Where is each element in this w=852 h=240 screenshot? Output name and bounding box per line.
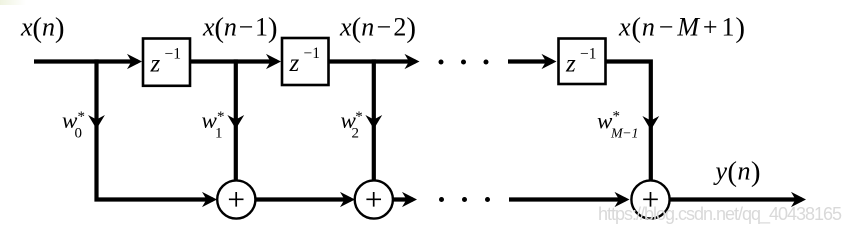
arrowhead bottom middle <box>402 192 417 207</box>
svg-text:x(n − M + 1): x(n − M + 1) <box>618 12 745 44</box>
output arrowhead <box>791 192 806 207</box>
wire input segment <box>34 59 138 63</box>
svg-text:−1: −1 <box>580 46 597 63</box>
svg-text:z: z <box>150 51 161 78</box>
wire U1 to U2 <box>190 59 277 63</box>
svg-text:M−1: M−1 <box>610 127 639 142</box>
tap arrowhead 3 down <box>365 115 382 129</box>
svg-text:*: * <box>355 109 363 125</box>
svg-text:y(n): y(n) <box>713 156 761 188</box>
wire U2 to ellipsis <box>329 59 416 63</box>
wire output y(n) <box>670 197 803 201</box>
ellipsis dots bottom <box>439 197 444 202</box>
svg-text:1: 1 <box>215 126 223 142</box>
ellipsis dots top <box>439 60 444 65</box>
svg-text:x(n − 2): x(n − 2) <box>339 12 416 44</box>
tap wire 1 (down from input node) <box>97 59 214 199</box>
adder A1 <box>217 180 255 218</box>
tap wire 3 <box>372 59 376 181</box>
arrowhead top middle <box>405 54 420 69</box>
arrowhead into U3 <box>542 54 557 69</box>
arrowhead into adder A2 <box>340 192 355 207</box>
tap arrowhead 4 down <box>642 116 659 130</box>
svg-text:x(n − 1): x(n − 1) <box>202 12 278 44</box>
arrowhead into adder A3 <box>615 192 630 207</box>
wire ellipsis to U3 <box>508 59 553 63</box>
tap arrowhead 2 down <box>227 115 244 129</box>
svg-text:*: * <box>613 109 621 125</box>
svg-text:2: 2 <box>352 126 360 142</box>
svg-text:−1: −1 <box>304 45 321 62</box>
arrowhead into U2 <box>266 54 281 69</box>
tap wire 2 <box>234 59 238 181</box>
svg-text:0: 0 <box>75 126 83 142</box>
svg-text:x(n): x(n) <box>20 12 65 44</box>
delay block U1 z^-1 <box>143 39 190 86</box>
svg-text:z: z <box>289 50 300 77</box>
tap arrowhead 1 down <box>88 115 105 129</box>
svg-text:https://blog.csdn.net/qq_40438: https://blog.csdn.net/qq_40438165 <box>598 204 842 225</box>
adder A3 <box>631 180 669 218</box>
arrowhead into adder A1 <box>202 192 217 207</box>
arrowhead into U1 <box>127 54 142 69</box>
svg-text:*: * <box>78 109 86 125</box>
wire A2 to ellipsis <box>392 197 413 201</box>
wire A1 to A2 <box>255 197 351 201</box>
svg-text:−1: −1 <box>165 46 182 63</box>
delay block U3 z^-1 <box>559 39 606 85</box>
wire ellipsis to A3 <box>509 197 626 201</box>
svg-text:*: * <box>217 109 225 125</box>
adder A2 <box>355 180 393 218</box>
tap wire 4 (from U3 output, corner down) <box>606 62 651 181</box>
delay block U2 z^-1 <box>282 38 329 85</box>
svg-text:z: z <box>565 51 576 78</box>
